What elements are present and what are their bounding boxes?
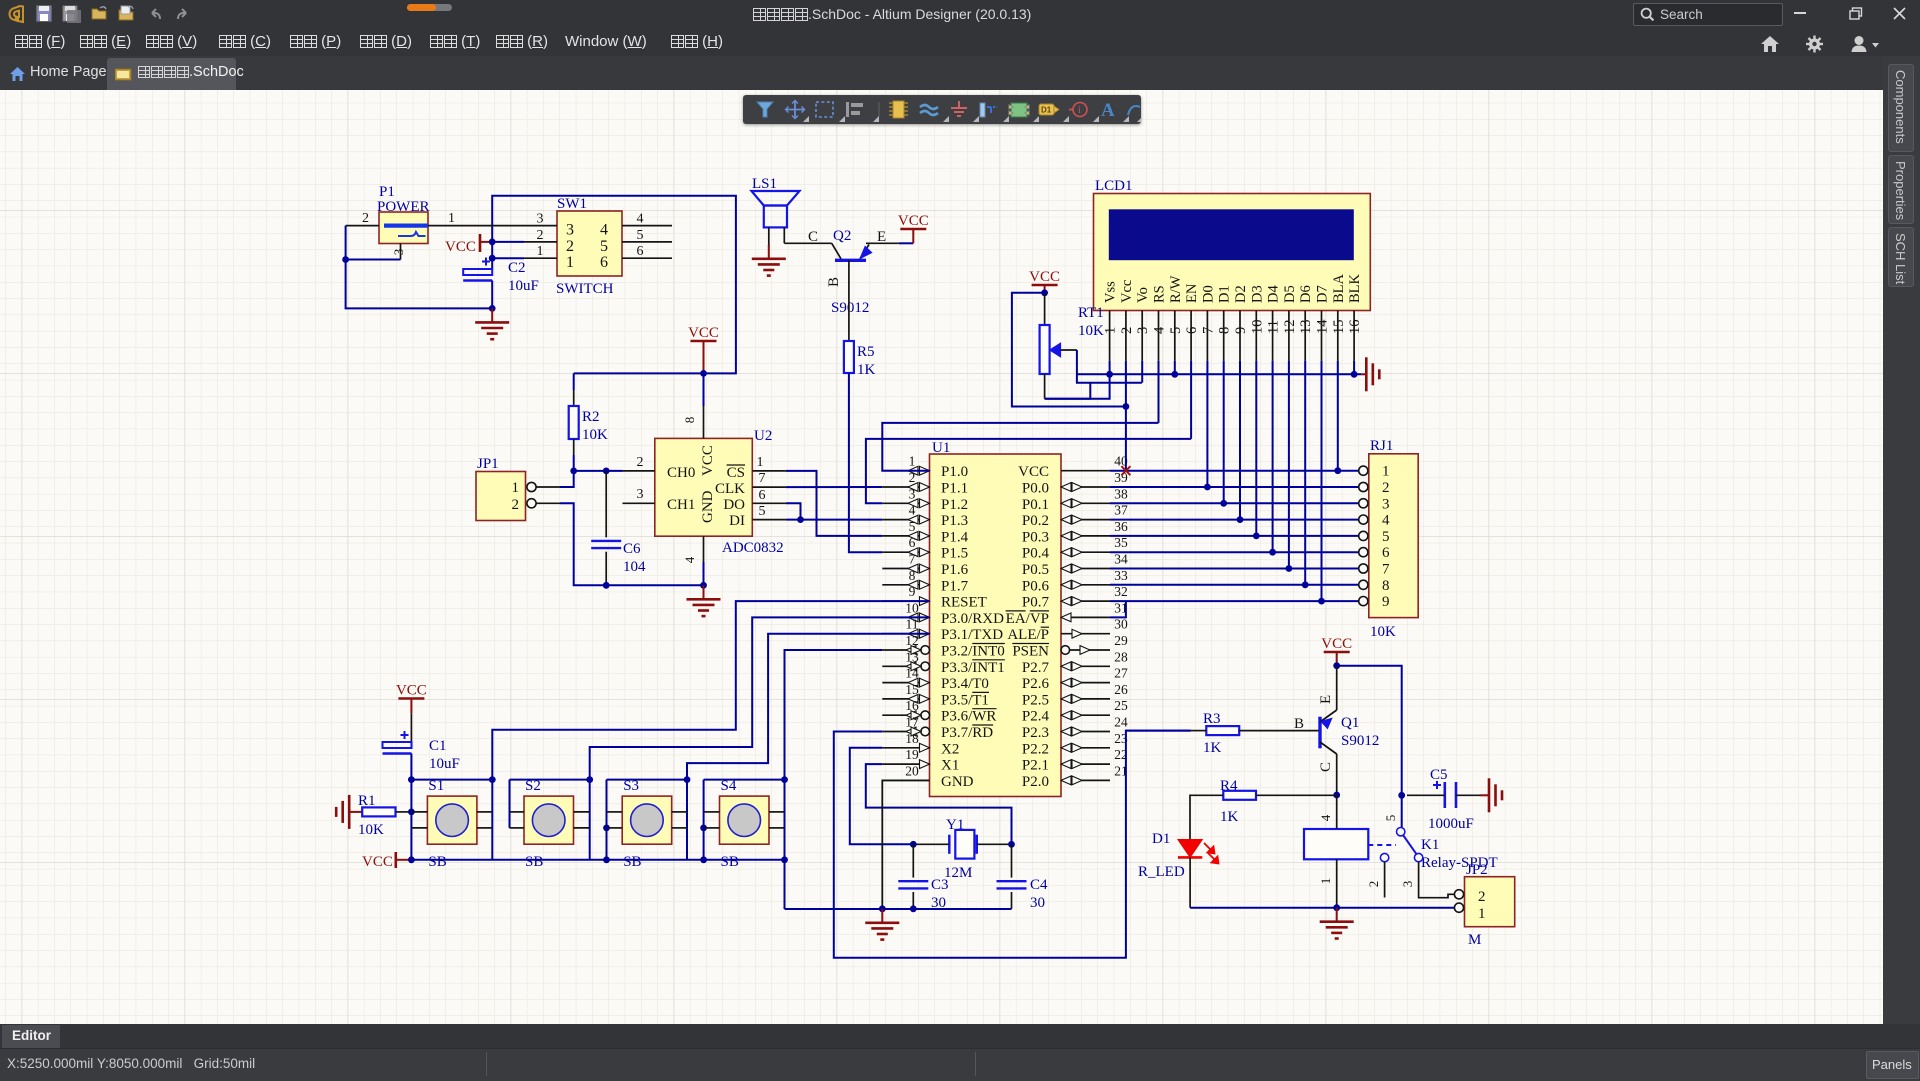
svg-text:D1: D1	[1041, 106, 1052, 115]
svg-text:C6: C6	[623, 541, 641, 557]
svg-text:C3: C3	[931, 877, 949, 893]
svg-text:1: 1	[1103, 327, 1119, 334]
svg-text:CS: CS	[727, 465, 745, 481]
svg-text:P2.0: P2.0	[1022, 774, 1049, 790]
svg-text:JP2: JP2	[1466, 862, 1488, 878]
svg-text:i: i	[1078, 105, 1081, 116]
svg-text:VCC: VCC	[688, 325, 719, 341]
svg-text:1: 1	[537, 244, 544, 259]
svg-text:11: 11	[1266, 320, 1282, 334]
svg-text:33: 33	[1114, 568, 1128, 583]
svg-text:D6: D6	[1298, 285, 1314, 303]
wire P3.2 to S4 column	[785, 650, 883, 909]
wire LCD Vo	[1141, 361, 1143, 383]
switch SW1	[557, 211, 622, 276]
wire P1 pin1 to SW1 pin3	[428, 225, 524, 227]
svg-text:2: 2	[1119, 327, 1135, 334]
ground (C2)	[491, 308, 493, 322]
wire U1 VCC pin40 to RJ1	[1110, 470, 1359, 472]
svg-text:P3.4/T0: P3.4/T0	[941, 676, 989, 692]
svg-text:10: 10	[1249, 320, 1265, 335]
floating toolbar	[743, 95, 1141, 124]
svg-text:S4: S4	[721, 778, 737, 794]
svg-text:6: 6	[1382, 545, 1390, 561]
svg-text:10uF: 10uF	[508, 278, 539, 294]
svg-text:4: 4	[1318, 814, 1333, 821]
resistor R2 10K	[573, 373, 575, 390]
svg-text:2: 2	[1366, 881, 1381, 888]
wire relay pin3 to JP2	[1419, 862, 1455, 898]
svg-text:10K: 10K	[1370, 624, 1396, 640]
bottom editor bar	[0, 1024, 1920, 1048]
capacitor C2 10uF	[491, 242, 493, 269]
svg-text:EA/VP: EA/VP	[1006, 611, 1049, 627]
title bar	[0, 0, 1920, 28]
svg-text:P2.1: P2.1	[1022, 758, 1049, 774]
svg-text:9: 9	[909, 584, 916, 599]
svg-text:12: 12	[1282, 320, 1298, 335]
svg-text:13: 13	[1298, 320, 1314, 335]
svg-text:SB: SB	[623, 854, 641, 870]
ground (LS1)	[768, 245, 770, 259]
ground (R1 earth)	[349, 811, 362, 813]
wire RESET to S1 column	[492, 601, 929, 859]
connector P1 POWER	[379, 212, 428, 244]
tab bar	[0, 56, 1920, 90]
svg-text:P3.0/RXD: P3.0/RXD	[941, 611, 1004, 627]
ground (U2)	[703, 585, 705, 599]
svg-text:VCC: VCC	[1018, 464, 1049, 480]
wire U2 GND pin4	[703, 536, 705, 562]
svg-text:P3.3/INT1: P3.3/INT1	[941, 660, 1005, 676]
U1 right pin stubs	[1061, 470, 1110, 472]
svg-text:P0.1: P0.1	[1022, 497, 1049, 513]
svg-text:R2: R2	[582, 409, 600, 425]
wire JP1 pin1	[536, 486, 560, 488]
svg-text:D4: D4	[1266, 285, 1282, 303]
svg-text:DI: DI	[729, 513, 745, 529]
svg-text:P3.1/TXD: P3.1/TXD	[941, 627, 1003, 643]
wire S1 left column	[410, 780, 412, 860]
svg-text:P1.2: P1.2	[941, 497, 968, 513]
svg-text:1K: 1K	[1203, 740, 1222, 756]
window title	[752, 6, 1172, 24]
svg-text:2: 2	[1382, 480, 1390, 496]
svg-text:5: 5	[1168, 327, 1184, 334]
svg-text:S2: S2	[525, 778, 541, 794]
svg-text:16: 16	[1347, 320, 1363, 335]
svg-text:104: 104	[623, 559, 646, 575]
toolbar icons	[36, 5, 196, 23]
wire LCD data D0-D7	[1206, 361, 1208, 487]
svg-text:LCD1: LCD1	[1095, 178, 1133, 194]
svg-text:D0: D0	[1200, 285, 1216, 303]
svg-text:Vcc: Vcc	[1119, 280, 1135, 303]
svg-text:P2.5: P2.5	[1022, 692, 1049, 708]
altium logo	[6, 4, 28, 24]
svg-text:GND: GND	[700, 490, 716, 523]
svg-text:SWITCH: SWITCH	[556, 281, 614, 297]
svg-text:32: 32	[1114, 584, 1128, 599]
svg-text:6: 6	[759, 488, 766, 503]
svg-text:B: B	[1294, 716, 1304, 732]
svg-text:8: 8	[909, 568, 916, 583]
wire LCD Vss	[1109, 361, 1111, 374]
U1 left pin stubs	[882, 470, 929, 472]
power VCC (C1)	[398, 697, 424, 700]
svg-text:RJ1: RJ1	[1370, 438, 1393, 454]
svg-text:C4: C4	[1030, 877, 1048, 893]
svg-text:4: 4	[682, 556, 697, 563]
svg-text:2: 2	[512, 497, 520, 513]
svg-text:A: A	[1101, 100, 1115, 121]
svg-text:2: 2	[362, 211, 369, 226]
wire R5 to U1 P1.5	[849, 373, 882, 552]
svg-text:P1.1: P1.1	[941, 481, 968, 497]
svg-text:D1: D1	[1217, 285, 1233, 303]
svg-text:RS: RS	[1152, 285, 1168, 303]
svg-text:PSEN: PSEN	[1012, 644, 1049, 660]
svg-text:P0.0: P0.0	[1022, 481, 1049, 497]
svg-text:Vo: Vo	[1135, 287, 1151, 303]
svg-text:10uF: 10uF	[429, 756, 460, 772]
svg-text:1K: 1K	[857, 362, 876, 378]
svg-text:C: C	[808, 229, 818, 245]
resistor R1 10K	[362, 807, 395, 816]
svg-text:2: 2	[566, 238, 574, 255]
capacitor C6 104	[574, 470, 607, 472]
svg-text:P1.3: P1.3	[941, 513, 968, 529]
LCD module LCD1	[1094, 194, 1371, 311]
svg-text:POWER: POWER	[377, 199, 430, 215]
wire P3.0 to S2 column	[590, 617, 930, 859]
svg-text:P0.7: P0.7	[1022, 595, 1050, 611]
svg-text:29: 29	[1114, 633, 1128, 648]
svg-text:D7: D7	[1315, 285, 1331, 303]
svg-text:S3: S3	[623, 778, 639, 794]
svg-text:D1: D1	[1152, 831, 1170, 847]
svg-text:7: 7	[1382, 562, 1390, 578]
svg-text:RT1: RT1	[1078, 305, 1104, 321]
svg-text:5: 5	[909, 519, 916, 534]
svg-text:20: 20	[905, 763, 919, 778]
svg-text:Vss: Vss	[1103, 281, 1119, 303]
svg-text:R1: R1	[358, 793, 376, 809]
svg-text:D2: D2	[1233, 285, 1249, 303]
svg-text:P3.6/WR: P3.6/WR	[941, 709, 996, 725]
svg-text:4: 4	[909, 503, 916, 518]
svg-text:36: 36	[1114, 519, 1128, 534]
svg-text:VCC: VCC	[396, 683, 427, 699]
svg-text:9: 9	[1382, 594, 1390, 610]
wire RT1 bottom	[1044, 374, 1046, 399]
wire P0.0-P0.7 to RJ1	[1110, 486, 1359, 488]
svg-text:B: B	[826, 277, 842, 287]
svg-text:JP1: JP1	[477, 456, 499, 472]
svg-text:30: 30	[1114, 617, 1128, 632]
svg-text:VCC: VCC	[898, 213, 929, 229]
wire LCD Vcc	[1125, 361, 1127, 471]
resistor R4 1K	[1223, 791, 1256, 800]
svg-text:Q1: Q1	[1341, 715, 1359, 731]
wire LCD BLK	[1353, 361, 1355, 374]
U1 overlines	[972, 643, 1005, 645]
wire LCD R/W	[1174, 361, 1176, 374]
svg-text:5: 5	[759, 504, 766, 519]
svg-text:P2.2: P2.2	[1022, 741, 1049, 757]
svg-text:6: 6	[600, 254, 608, 271]
svg-text:P3.2/INT0: P3.2/INT0	[941, 644, 1005, 660]
svg-text:C: C	[1318, 762, 1334, 772]
svg-text:25: 25	[1114, 698, 1128, 713]
svg-text:P2.4: P2.4	[1022, 709, 1050, 725]
svg-text:SB: SB	[721, 854, 739, 870]
svg-text:P0.3: P0.3	[1022, 529, 1049, 545]
svg-text:RESET: RESET	[941, 595, 987, 611]
svg-text:8: 8	[682, 417, 697, 424]
capacitor C1 10uF	[410, 713, 412, 742]
connector JP1	[476, 472, 526, 521]
svg-text:5: 5	[600, 238, 608, 255]
resistor R3 1K	[1126, 730, 1191, 732]
svg-text:P2.6: P2.6	[1022, 676, 1050, 692]
wire VCC top distribution	[492, 196, 736, 374]
svg-text:M: M	[1468, 932, 1481, 948]
wire DI to P1.3	[786, 519, 882, 521]
svg-text:7: 7	[909, 552, 916, 567]
wire relay pin2	[1384, 862, 1386, 898]
svg-text:6: 6	[1184, 327, 1200, 334]
wire P1 pin2 to GND	[346, 225, 379, 227]
wire Q1 collector	[1336, 754, 1338, 795]
svg-text:P0.2: P0.2	[1022, 513, 1049, 529]
wire DO join DI	[786, 503, 801, 519]
svg-text:R3: R3	[1203, 711, 1221, 727]
svg-text:28: 28	[1114, 649, 1128, 664]
wire Q2 base	[848, 260, 850, 341]
svg-text:P1.4: P1.4	[941, 529, 969, 545]
ground (crystal)	[881, 909, 883, 923]
wire button top rails	[411, 779, 492, 781]
connector JP2	[1465, 877, 1515, 927]
search box	[1633, 3, 1783, 26]
svg-text:6: 6	[637, 244, 644, 259]
svg-text:U2: U2	[754, 428, 772, 444]
svg-text:E: E	[1318, 695, 1334, 704]
svg-text:ALE/P: ALE/P	[1007, 627, 1049, 643]
wire X1 to Y1	[866, 764, 1012, 844]
U2 pin stubs	[623, 470, 655, 472]
svg-text:P1.5: P1.5	[941, 546, 968, 562]
window buttons	[1794, 12, 1806, 14]
power VCC (U2)	[691, 340, 717, 343]
svg-text:Q2: Q2	[833, 228, 851, 244]
svg-text:1: 1	[448, 211, 455, 226]
wire RT1 wiper to Vo	[1077, 350, 1142, 383]
svg-text:6: 6	[909, 535, 916, 550]
svg-text:3: 3	[1400, 881, 1415, 888]
svg-text:S1: S1	[428, 778, 444, 794]
svg-text:P1.6: P1.6	[941, 562, 969, 578]
svg-text:7: 7	[1200, 327, 1216, 334]
wire LS1 to Q2 collector	[783, 227, 785, 243]
svg-text:1: 1	[1478, 906, 1486, 922]
svg-text:S9012: S9012	[831, 300, 869, 316]
svg-text:8: 8	[1382, 578, 1390, 594]
svg-text:P2.3: P2.3	[1022, 725, 1049, 741]
svg-text:X2: X2	[941, 741, 959, 757]
wire CS to P1.4	[786, 471, 882, 536]
svg-text:C1: C1	[429, 738, 447, 754]
svg-text:P3.5/T1: P3.5/T1	[941, 692, 989, 708]
svg-text:DO: DO	[723, 497, 745, 513]
wire S2 left column	[509, 780, 511, 828]
svg-text:10K: 10K	[582, 427, 608, 443]
svg-text:ADC0832: ADC0832	[722, 540, 784, 556]
active tab	[107, 58, 236, 90]
svg-text:10K: 10K	[358, 822, 384, 838]
svg-text:34: 34	[1114, 552, 1128, 567]
wire CH0	[606, 470, 622, 472]
wire CLK to P1.1	[786, 486, 882, 488]
svg-text:1000uF: 1000uF	[1428, 816, 1474, 832]
svg-text:8: 8	[1217, 327, 1233, 334]
status bar	[0, 1048, 1920, 1081]
IC U1 (MCU 8051)	[930, 454, 1062, 797]
svg-text:1: 1	[1382, 464, 1390, 480]
svg-text:CH1: CH1	[667, 497, 695, 513]
svg-text:K1: K1	[1421, 837, 1439, 853]
svg-text:4: 4	[1152, 326, 1168, 334]
svg-text:37: 37	[1114, 503, 1128, 518]
svg-text:4: 4	[637, 212, 644, 227]
svg-text:1K: 1K	[1220, 809, 1239, 825]
wire SW1 pin1	[492, 257, 524, 259]
wire LCD BLA	[1337, 361, 1339, 471]
wire button bottom rail	[411, 859, 784, 861]
svg-text:P1.0: P1.0	[941, 464, 968, 480]
svg-text:S9012: S9012	[1341, 733, 1379, 749]
home tab	[9, 66, 26, 82]
svg-text:2: 2	[909, 470, 916, 485]
svg-text:14: 14	[1315, 319, 1331, 334]
svg-text:CH0: CH0	[667, 465, 695, 481]
svg-text:3: 3	[909, 486, 916, 501]
svg-text:5: 5	[1383, 815, 1398, 822]
progress pill	[407, 4, 452, 11]
svg-text:3: 3	[1135, 327, 1151, 334]
svg-text:30: 30	[1030, 895, 1045, 911]
svg-text:3: 3	[537, 212, 544, 227]
svg-text:P3.7/RD: P3.7/RD	[941, 725, 993, 741]
resistor network RJ1 10K	[1369, 454, 1418, 618]
svg-text:VCC: VCC	[362, 854, 393, 870]
pushbutton S3	[622, 796, 672, 844]
svg-text:EN: EN	[1184, 283, 1200, 303]
svg-text:U1: U1	[932, 440, 950, 456]
svg-text:39: 39	[1114, 470, 1128, 485]
svg-text:19: 19	[905, 747, 919, 762]
wire P1 pin3	[400, 244, 402, 260]
menu right icons	[1760, 35, 1780, 53]
svg-text:R_LED: R_LED	[1138, 864, 1185, 880]
wire S3 left column	[606, 780, 608, 860]
svg-text:R4: R4	[1220, 778, 1238, 794]
svg-text:18: 18	[905, 731, 919, 746]
svg-text:10K: 10K	[1078, 323, 1104, 339]
svg-text:D3: D3	[1249, 285, 1265, 303]
svg-text:9: 9	[1233, 327, 1249, 334]
wire EA jog	[1110, 601, 1126, 617]
wire LCD RS to P1.0	[1158, 361, 1160, 423]
svg-text:3: 3	[637, 487, 644, 502]
svg-text:1: 1	[757, 455, 764, 470]
svg-text:SB: SB	[428, 854, 446, 870]
svg-text:3: 3	[566, 222, 574, 239]
svg-text:1: 1	[512, 480, 520, 496]
ground (relay)	[1336, 908, 1338, 922]
svg-text:26: 26	[1114, 682, 1128, 697]
wire P3.1 to S3 column	[687, 634, 930, 860]
power VCC (Q2)	[899, 242, 913, 244]
svg-text:4: 4	[1382, 513, 1390, 529]
svg-text:SB: SB	[525, 854, 543, 870]
capacitor C5 1000uF	[1433, 784, 1441, 786]
svg-text:R5: R5	[857, 344, 875, 360]
svg-text:VCC: VCC	[1321, 636, 1352, 652]
svg-text:24: 24	[1114, 715, 1128, 730]
svg-text:P0.6: P0.6	[1022, 578, 1050, 594]
svg-text:VCC: VCC	[1029, 269, 1060, 285]
wire crystal GND rail	[785, 908, 1012, 910]
svg-text:GND: GND	[941, 774, 974, 790]
svg-text:3: 3	[391, 249, 406, 256]
svg-text:CLK: CLK	[715, 481, 745, 497]
pushbutton S4	[720, 796, 770, 844]
capacitor C3 30	[912, 844, 914, 877]
svg-text:X1: X1	[941, 758, 959, 774]
svg-text:R/W: R/W	[1168, 275, 1184, 303]
wire VCC to relay common	[1337, 666, 1402, 828]
svg-text:2: 2	[1478, 889, 1486, 905]
LCD1 pin stubs	[1109, 311, 1111, 361]
svg-text:38: 38	[1114, 486, 1128, 501]
wire U1 GND pin20	[882, 780, 929, 908]
svg-text:3: 3	[1382, 496, 1390, 512]
wire VCC node to SW1 pin2	[492, 241, 524, 243]
svg-text:C5: C5	[1430, 767, 1448, 783]
IC U2 ADC0832	[655, 438, 753, 536]
svg-text:27: 27	[1114, 666, 1128, 681]
svg-text:LS1: LS1	[752, 176, 777, 192]
svg-text:7: 7	[759, 471, 766, 486]
svg-text:4: 4	[600, 222, 608, 239]
svg-text:35: 35	[1114, 535, 1128, 550]
resistor R5 1K	[844, 341, 854, 373]
power VCC (Q1)	[1324, 651, 1350, 654]
menu bar	[0, 28, 1920, 56]
wire LCD EN to P1.2	[1190, 361, 1192, 439]
wire LCD GND rail	[1077, 373, 1361, 375]
svg-text:P1: P1	[379, 184, 395, 200]
svg-text:1: 1	[566, 254, 574, 271]
svg-text:SW1: SW1	[557, 196, 587, 212]
svg-text:P0.5: P0.5	[1022, 562, 1049, 578]
svg-text:5: 5	[1382, 529, 1390, 545]
svg-text:1: 1	[909, 454, 916, 469]
svg-text:2: 2	[537, 228, 544, 243]
pushbutton S2	[524, 796, 574, 844]
